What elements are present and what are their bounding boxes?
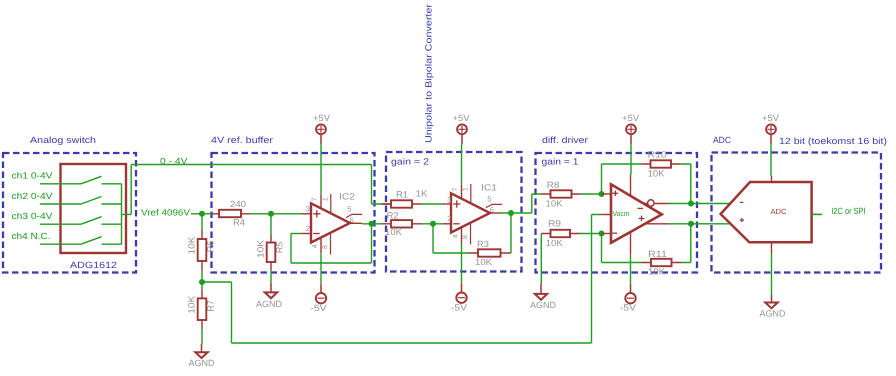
wire FDA bottom pin to -5V (630, 255, 632, 284)
svg-text:ch2 0-4V: ch2 0-4V (12, 191, 53, 201)
wire +5V to IC2 pin7 (320, 144, 322, 194)
svg-text:Unipolar to Bipolar Converter: Unipolar to Bipolar Converter (424, 4, 434, 143)
wire Vocm routing to diff driver (232, 215, 602, 344)
wire R4 to IC2 pin3 (251, 213, 301, 215)
svg-text:+5V: +5V (453, 113, 470, 123)
svg-text:ch3 0-4V: ch3 0-4V (12, 211, 53, 221)
svg-text:R5: R5 (275, 242, 285, 254)
resistor R1 body (382, 203, 422, 205)
minus mark at ADC top input (740, 201, 744, 203)
svg-text:AGND: AGND (760, 309, 786, 319)
svg-text:240: 240 (230, 199, 246, 209)
junction IC1 output node (508, 210, 514, 216)
op-amp FDA inverted output line (644, 203, 669, 205)
svg-text:+5V: +5V (622, 113, 639, 123)
svg-text:Analog switch: Analog switch (30, 135, 96, 145)
op-amp FDA inversion bubble (648, 200, 654, 206)
wire IC1 feedback down from R2 node (433, 226, 469, 253)
op-amp U2 fully-differential driver triangle (611, 184, 662, 243)
wire R7 to AGND (201, 330, 203, 345)
wire AGND to R9 (540, 234, 542, 284)
svg-text:ADG1612: ADG1612 (70, 260, 117, 270)
svg-text:-5V: -5V (311, 303, 327, 313)
resistor R10 body (641, 163, 681, 165)
frame: 4V ref. buffer section box (212, 153, 375, 273)
switch S2 arm ch2 (81, 197, 102, 205)
ADC bottom pin (771, 242, 773, 253)
wire R2 to IC1 pin2 (422, 223, 444, 225)
supply +5V symbol above ADC (762, 113, 779, 144)
wire R4 node down to R5 (270, 216, 272, 235)
supply -5V symbol below FDA (620, 284, 636, 312)
svg-text:10K: 10K (187, 296, 197, 314)
svg-text:3: 3 (306, 205, 310, 214)
svg-text:10K: 10K (475, 257, 492, 267)
junction FDA +input / R10 node (599, 191, 605, 197)
svg-text:10K: 10K (546, 199, 563, 209)
wire IC2 pin2 input (291, 233, 301, 235)
op-amp FDA bottom supply pin (630, 232, 632, 255)
wire R5 to AGND (270, 270, 272, 283)
op-amp IC1 output pin stub (490, 212, 502, 214)
ground AGND below R9 (530, 284, 556, 310)
minus mark at IC1 pin2 (453, 223, 460, 225)
svg-text:R6: R6 (205, 241, 215, 253)
wire R8 to FDA +input (581, 193, 602, 195)
minus mark at FDA inverted output (638, 207, 644, 209)
wire FDA OUT+ to ADC (669, 223, 731, 225)
op-amp IC1 pin 4 line (V-) (461, 228, 463, 244)
wire net 0-4V horizontal to gain2 stage (131, 165, 391, 205)
resistor R6 body (198, 230, 207, 271)
op-amp FDA +input pin stub (602, 193, 612, 195)
svg-text:10K: 10K (385, 227, 402, 237)
junction FDA -input / R11 node (599, 231, 605, 237)
switch S4 arm ch4 (81, 237, 102, 245)
svg-text:+5V: +5V (313, 113, 330, 123)
svg-text:R4: R4 (233, 218, 245, 228)
svg-text:ch1 0-4V: ch1 0-4V (12, 171, 53, 181)
op-amp IC1 pin 2 stub (443, 223, 451, 225)
resistor R8 body (541, 193, 581, 195)
svg-text:7: 7 (452, 187, 459, 191)
svg-text:ADC: ADC (771, 207, 788, 216)
wire ch2 input (40, 203, 81, 205)
op-amp IC2 pin 2 stub (301, 233, 311, 235)
wire IC2 pin4 to -5V (320, 253, 322, 284)
wire R10 to OUT- node (681, 164, 691, 204)
svg-text:3: 3 (447, 195, 451, 204)
op-amp IC2 triangle (311, 203, 350, 242)
svg-text:4: 4 (312, 244, 319, 248)
svg-text:AGND: AGND (530, 300, 556, 310)
switch S1 arm ch1 (81, 176, 102, 184)
supply +5V symbol above IC2 (313, 113, 330, 144)
plus mark at IC1 pin3 (453, 200, 460, 207)
wire R9 to FDA -input (580, 233, 602, 235)
wire ch1 switch right contact (102, 183, 122, 185)
wire IC2 feedback loop (291, 226, 372, 263)
svg-text:8: 8 (322, 245, 329, 249)
svg-text:diff. driver: diff. driver (542, 135, 588, 145)
resistor R9 body (541, 233, 579, 235)
svg-text:AGND: AGND (189, 358, 215, 368)
wire ch2 switch right contact (102, 203, 122, 205)
wire R1 to IC1 pin3 (422, 203, 444, 205)
frame: gain = 2 section box (386, 152, 522, 272)
op-amp IC1 triangle (451, 193, 490, 232)
junction IC2 output node (369, 221, 375, 227)
op-amp IC2 pin 1 line (330, 194, 332, 213)
wire R11 to OUT+ node (681, 224, 691, 263)
junction Vref/R6 node (199, 211, 205, 217)
svg-text:0 - 4V: 0 - 4V (160, 156, 188, 166)
svg-text:R7: R7 (205, 300, 215, 312)
svg-text:4: 4 (453, 234, 460, 238)
svg-text:2: 2 (447, 214, 451, 223)
wire ADC data out (right) (812, 213, 822, 215)
plus mark at ADC bottom input (740, 218, 744, 222)
svg-text:-5V: -5V (451, 303, 467, 313)
junction OUT- node (688, 201, 694, 207)
wire switch common exit (122, 165, 132, 215)
minus mark at FDA -input (613, 232, 618, 234)
svg-text:R10: R10 (648, 150, 667, 160)
op-amp IC2 pin 5 stub and diagonal (346, 214, 362, 217)
svg-text:Vocm: Vocm (613, 211, 630, 218)
svg-text:10K: 10K (187, 237, 197, 255)
svg-text:10K: 10K (648, 267, 665, 277)
svg-text:10K: 10K (546, 238, 563, 248)
svg-text:1K: 1K (416, 189, 428, 199)
svg-text:Vref 4096V: Vref 4096V (141, 207, 190, 217)
svg-text:12 bit (toekomst 16 bit): 12 bit (toekomst 16 bit) (779, 136, 887, 146)
wire ch3 input (40, 223, 81, 225)
resistor R4 body (212, 210, 252, 217)
svg-text:1: 1 (322, 197, 329, 201)
plus mark at IC2 pin3 (313, 210, 320, 217)
resistor R5 body (267, 235, 276, 271)
minus mark at IC2 pin2 (313, 233, 320, 235)
ground AGND below R5 (256, 283, 282, 309)
svg-text:R2: R2 (387, 211, 399, 221)
svg-text:ADC: ADC (713, 135, 731, 145)
svg-text:R9: R9 (548, 219, 561, 229)
svg-text:+5V: +5V (762, 113, 779, 123)
svg-text:R8: R8 (547, 180, 560, 190)
junction OUT+ node (688, 221, 694, 227)
svg-text:gain = 1: gain = 1 (542, 157, 579, 167)
op-amp IC2 pin 4 line (V-) (320, 238, 322, 254)
frame: Analog switch section box (3, 153, 136, 273)
wire IC1 pin4 to -5V (461, 243, 463, 284)
svg-text:2: 2 (306, 224, 310, 233)
switch S3 arm ch3 (81, 217, 102, 225)
resistor R2 body (382, 223, 422, 225)
resistor R3 body (469, 252, 512, 254)
wire ch1 input (40, 183, 81, 185)
op-amp IC2 pin 3 stub (301, 213, 311, 215)
svg-text:I2C or SPI: I2C or SPI (832, 206, 866, 216)
resistor R7 body (198, 284, 207, 330)
wire ADC bottom pin to AGND (771, 253, 773, 295)
ground AGND below R7 (189, 344, 215, 368)
svg-text:10K: 10K (256, 240, 266, 258)
plus mark at FDA non-inverted output (639, 216, 645, 222)
supply -5V symbol below IC2 (311, 284, 327, 313)
junction R6/R7/Vocm node (199, 279, 205, 285)
op-amp IC2 pin 8 line (330, 233, 332, 255)
wire ch4 input (40, 243, 81, 245)
ADC top supply pin (771, 176, 773, 182)
junction R4/R5 node (268, 211, 274, 217)
svg-text:7: 7 (311, 197, 318, 201)
svg-text:4V ref. buffer: 4V ref. buffer (211, 135, 273, 145)
switch IC U1 ADG1612 body (61, 164, 127, 253)
supply +5V symbol above FDA (622, 113, 639, 144)
op-amp IC2 output pin stub (350, 222, 362, 224)
supply -5V symbol below IC1 (451, 284, 467, 313)
wire Vref 4096V to R4 and R6 (191, 214, 212, 230)
op-amp FDA Vocm pin stub (602, 214, 612, 216)
op-amp FDA non-inverted output line (645, 223, 669, 225)
wire switch common bus vertical (121, 184, 123, 244)
svg-text:8: 8 (462, 235, 469, 239)
plus mark at FDA +input (613, 191, 619, 197)
wire ch3 switch right contact (102, 223, 122, 225)
svg-text:10K: 10K (648, 169, 665, 179)
wire +5V to ADC top pin (770, 144, 772, 176)
op-amp IC1 pin 7 line (V+) (461, 184, 463, 198)
wire +5V to IC1 pin7 (461, 144, 463, 184)
wire ch4 switch right contact (102, 243, 122, 245)
wire R6 to R7 junction (202, 271, 232, 283)
junction R2/R3 feedback node (430, 221, 436, 227)
resistor R11 body (642, 262, 682, 264)
op-amp IC1 pin 1 line (470, 184, 472, 203)
svg-text:ch4 N.C.: ch4 N.C. (12, 231, 51, 241)
svg-text:1: 1 (462, 187, 469, 191)
svg-text:5: 5 (487, 195, 491, 204)
wire R10 feedback from +input node (602, 164, 642, 194)
svg-text:AGND: AGND (256, 299, 282, 309)
svg-text:-5V: -5V (620, 303, 636, 313)
op-amp IC1 pin 5 stub and diagonal (486, 204, 502, 207)
ground AGND below ADC (760, 295, 786, 319)
frame: diff. driver section box (536, 153, 698, 273)
wire R3 to IC1 output node (510, 216, 512, 254)
op-amp IC1 pin 8 line (470, 223, 472, 245)
frame: ADC section box (712, 153, 882, 273)
svg-text:R11: R11 (648, 249, 667, 259)
wire R11 feedback from -input node (602, 234, 642, 263)
svg-text:IC1: IC1 (481, 183, 497, 193)
wire FDA OUT- to ADC (669, 203, 731, 205)
op-amp FDA -input pin stub (602, 233, 612, 235)
wire IC2 output to R2 (362, 223, 382, 225)
op-amp IC1 pin 3 stub (443, 203, 451, 205)
svg-text:IC2: IC2 (339, 192, 355, 202)
svg-text:R1: R1 (396, 190, 408, 200)
op-amp FDA top supply pin (630, 175, 632, 197)
wire +5V to FDA top pin (630, 144, 632, 174)
op-amp IC2 pin 7 line (V+) (320, 194, 322, 208)
ADC U3 body polygon (721, 182, 812, 242)
supply +5V symbol above IC1 (453, 113, 470, 144)
svg-text:R3: R3 (477, 239, 489, 249)
svg-text:gain = 2: gain = 2 (391, 157, 429, 167)
wire IC1 output to diff driver R8 (502, 194, 542, 213)
svg-text:5: 5 (347, 205, 351, 214)
